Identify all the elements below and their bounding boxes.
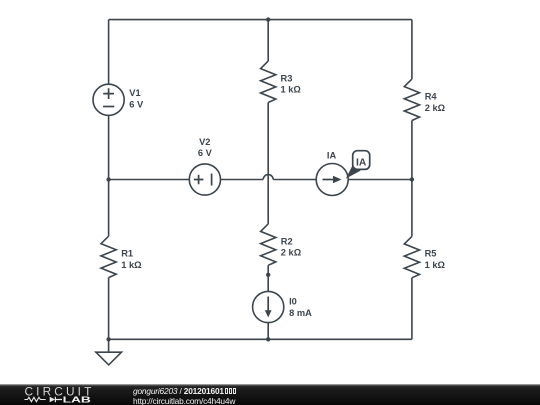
wire mid junction to R5	[411, 180, 413, 237]
resistor R4	[404, 79, 419, 120]
wire left branch upper	[108, 20, 110, 85]
wire bottom net	[109, 338, 412, 340]
R4 labels	[425, 92, 446, 113]
IA flag pointer	[346, 164, 361, 179]
ammeter IA	[316, 164, 348, 196]
wire middle horizontal left	[109, 179, 190, 181]
resistor R5	[404, 236, 419, 277]
svg-text:V2: V2	[199, 137, 210, 147]
IA flag box	[353, 151, 370, 170]
resistor R3	[261, 61, 276, 102]
junction dot node right-mid	[410, 177, 414, 181]
footer url row	[133, 396, 235, 405]
R2 labels	[281, 236, 302, 257]
svg-text:LAB: LAB	[63, 396, 92, 405]
svg-text:2 kΩ: 2 kΩ	[281, 248, 302, 258]
wire I0 to bottom	[267, 323, 269, 340]
wire R2 to I0	[267, 265, 269, 291]
svg-text:6 V: 6 V	[129, 100, 144, 110]
svg-text:1 kΩ: 1 kΩ	[281, 85, 302, 95]
I0 labels	[289, 296, 312, 318]
footer bar	[0, 384, 540, 405]
R3 labels	[281, 73, 302, 94]
svg-text:R5: R5	[425, 249, 437, 259]
wire top net	[109, 19, 412, 21]
CircuitLab logo	[20, 385, 130, 405]
svg-text:IA: IA	[327, 150, 337, 160]
wire ammeter to right branch	[348, 179, 412, 181]
wire right branch top	[411, 20, 413, 80]
IA name label	[327, 150, 337, 160]
svg-text:R4: R4	[425, 92, 438, 102]
svg-text:1 kΩ: 1 kΩ	[425, 260, 446, 270]
wire V2 to hop	[221, 179, 264, 181]
junction dot node top-middle	[266, 17, 270, 21]
svg-text:R1: R1	[121, 249, 133, 259]
svg-text:1 kΩ: 1 kΩ	[121, 260, 142, 270]
wire ground stub	[108, 339, 110, 352]
svg-text:IA: IA	[356, 158, 367, 169]
V2 labels	[198, 137, 213, 158]
junction dot node bottom-middle	[266, 337, 270, 341]
wire top to R3	[267, 20, 269, 62]
wire V1 to R1	[108, 115, 110, 236]
junction dot node R2-I0	[266, 273, 270, 277]
voltage source V2	[189, 164, 220, 195]
svg-text:2 kΩ: 2 kΩ	[425, 103, 446, 113]
svg-text:8 mA: 8 mA	[289, 308, 312, 318]
svg-text:I0: I0	[289, 296, 297, 306]
svg-text:6 V: 6 V	[198, 148, 213, 158]
svg-text:R3: R3	[281, 73, 293, 83]
ground	[96, 352, 122, 365]
svg-text:R2: R2	[281, 236, 293, 246]
wire hop to ammeter	[273, 179, 316, 181]
junction dot node left-mid	[106, 177, 110, 181]
voltage source V1	[93, 84, 124, 115]
wire hop over middle branch	[263, 175, 273, 180]
wire R1 to ground node	[108, 278, 110, 340]
R1 labels	[121, 249, 142, 270]
wire R5 to bottom	[411, 278, 413, 340]
wire R4 to mid junction	[411, 121, 413, 180]
resistor R1	[101, 236, 116, 277]
V1 labels	[129, 88, 144, 109]
junction dot node left-bottom	[106, 337, 110, 341]
resistor R2	[261, 224, 276, 265]
current source I0	[253, 291, 284, 322]
R5 labels	[425, 249, 446, 270]
svg-text:V1: V1	[129, 88, 140, 98]
wire R3 to R2 crossing middle wire	[267, 103, 269, 224]
footer credit row	[133, 386, 236, 396]
